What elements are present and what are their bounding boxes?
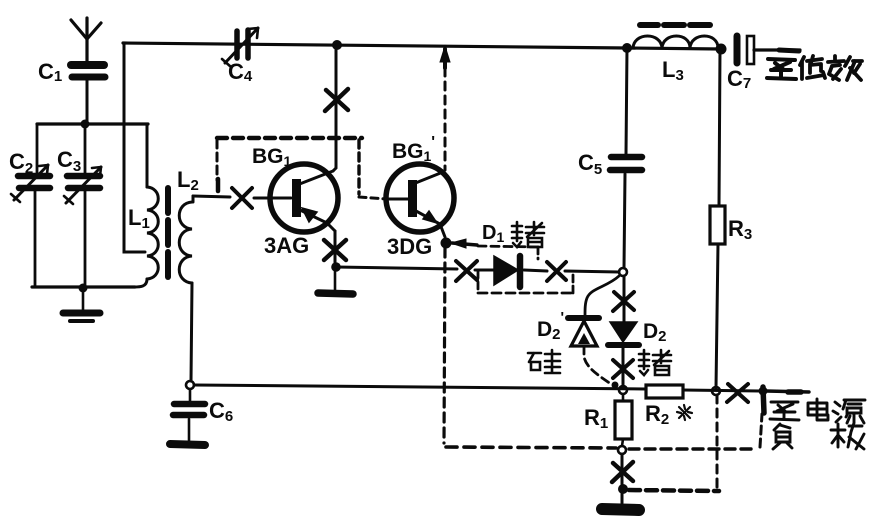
dashed box BG1 top <box>217 136 362 140</box>
L3 core dashes <box>640 22 710 28</box>
dashed collector BG1p to top rail <box>444 68 447 170</box>
diode D1 <box>494 256 520 287</box>
label zhe (germanium, D2) <box>639 350 671 375</box>
inductor L2 <box>179 196 193 381</box>
arrow up at top rail <box>443 49 447 68</box>
wire bottom rail <box>194 385 646 389</box>
junction node (rail / R1 top) <box>619 386 627 394</box>
wire R3 branch <box>719 49 720 206</box>
emitter dot BG1p <box>441 238 452 249</box>
X mark (left of D1) <box>456 261 477 281</box>
junction dot (L3 left) <box>622 43 632 53</box>
capacitor C1 <box>71 65 105 77</box>
X mark (below R1) <box>612 462 633 482</box>
X mark (above D2) <box>613 292 634 311</box>
X mark (rail to terminal) <box>727 384 748 402</box>
wire C7 to output <box>754 48 800 51</box>
label zhi-dianyuan (to power source) <box>770 402 799 420</box>
svg-text:3AG: 3AG <box>264 233 309 258</box>
dashed bottom rail (alt emitter return) <box>446 447 616 448</box>
wire tank bottom line <box>32 285 135 288</box>
wire C1 to node <box>86 80 89 124</box>
X mark (collector BG1) <box>325 89 348 111</box>
junction dot above ground <box>618 484 628 494</box>
bold dashed bottom link <box>629 490 719 491</box>
wire X to BG1 base <box>254 197 291 200</box>
svg-text:3DG: 3DG <box>387 234 432 259</box>
wire node to X to D2 <box>623 276 626 322</box>
node B junction dot <box>79 284 88 293</box>
X mark (emitter BG1) <box>324 240 346 260</box>
dashed box BG1 right / to BG1p base <box>357 140 360 194</box>
wire BG1 emitter <box>334 231 337 264</box>
wire BG1 collector <box>333 45 336 171</box>
ground (BG1 emitter) <box>318 268 353 294</box>
junction dot top rail <box>332 40 342 50</box>
X mark (base BG1) <box>232 188 252 208</box>
X mark (below D2) <box>613 360 633 378</box>
wire C5 to D-node <box>624 174 625 268</box>
junction dot emitter node <box>331 262 341 272</box>
label xing (note mark after R2) <box>677 405 692 420</box>
resistor R1 <box>615 394 632 446</box>
capacitor C5 <box>610 157 642 170</box>
transistor BG1 <box>270 164 338 232</box>
dashed box BG1 left <box>216 140 219 180</box>
wire C5 branch vertical <box>626 48 627 154</box>
label gui (silicon, D2p) <box>528 350 560 373</box>
capacitor C2 <box>11 124 50 287</box>
inductor L1 <box>134 124 158 287</box>
antenna <box>71 18 101 61</box>
label zhe (germanium, D1) <box>512 222 544 247</box>
label zhi-di-fang (to audio amp) <box>767 59 796 79</box>
wire tank top node line <box>37 122 148 125</box>
wire D2 to rail <box>622 345 625 386</box>
junction node (C6) <box>186 381 194 389</box>
resistor R3 <box>710 206 725 244</box>
inductor L3 <box>633 36 718 48</box>
dashed box D1 left/bottom/right <box>477 271 480 292</box>
wire antenna tap vertical <box>124 43 145 252</box>
junction node (R3 bottom / rail) <box>712 387 720 395</box>
junction node (D1 row / C5 line) <box>619 268 627 276</box>
transistor BG1p <box>386 164 454 237</box>
ground (bottom) <box>602 509 639 510</box>
dashed curve D2p to rail node <box>584 346 611 384</box>
capacitor C6 <box>173 389 205 441</box>
diode D2 <box>608 322 639 345</box>
transformer core <box>165 188 171 277</box>
dashed emitter drop BG1p <box>444 248 445 443</box>
arrow from emitter dot to D1 box <box>452 243 477 245</box>
hanzi glyph drawings <box>512 56 865 449</box>
junction node (R1 bottom) <box>618 446 626 454</box>
dashed vertical up to terminal <box>760 414 762 447</box>
dashed top of D1 box <box>478 246 538 247</box>
wire top rail <box>123 43 720 49</box>
wire R1 bottom to ground <box>621 454 624 503</box>
diode D2p (silicon) <box>568 318 599 346</box>
ground (C6) <box>170 444 205 445</box>
capacitor C3 <box>64 124 101 288</box>
node A junction dot <box>81 120 90 129</box>
X mark (right of D1) <box>547 262 566 281</box>
wire D1 row <box>336 267 457 269</box>
dashed vertical R3-node down <box>716 395 719 489</box>
junction dot (L3 right) <box>716 44 727 55</box>
resistor R2 <box>646 385 683 398</box>
ground (tank) <box>63 290 100 321</box>
capacitor C7 <box>737 36 754 64</box>
wire L2 to base <box>193 196 230 197</box>
diode D2p curve from node <box>585 276 619 316</box>
capacitor C4 <box>222 28 258 67</box>
wire terminal out <box>766 391 809 392</box>
terminal tick <box>763 387 764 413</box>
